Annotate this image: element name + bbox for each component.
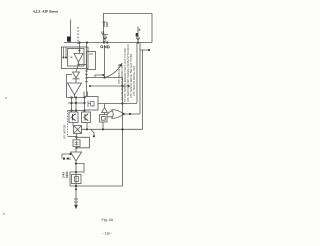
wire vertical feed A	[136, 43, 138, 104]
wire lower return y129.3	[82, 128, 143, 130]
wire horizontal y110.5	[68, 110, 85, 112]
ground arrow	[74, 205, 78, 209]
op-amp block U1 inner box	[68, 49, 85, 67]
wire G1 inputs	[107, 111, 113, 117]
svg-text:1B: 1B	[69, 56, 72, 59]
label vertical REG	[77, 27, 79, 44]
svg-text:ATF SERVO DRIVE OUT: ATF SERVO DRIVE OUT	[132, 65, 136, 96]
wire taps inside box	[64, 47, 67, 58]
node ladder dots	[70, 96, 85, 111]
wire bus to U1	[79, 43, 81, 54]
svg-text:2: 2	[139, 28, 141, 32]
wire top box loop	[104, 14, 153, 43]
wire Q2 down	[86, 123, 88, 130]
svg-text:ATF Servo: ATF Servo	[42, 10, 58, 14]
wire U3 stems	[104, 104, 106, 115]
svg-text:4.2.2: 4.2.2	[33, 10, 40, 14]
resistor network marks	[63, 158, 65, 160]
connector J3 stem	[137, 27, 139, 43]
resistor ticks on rail	[85, 71, 88, 82]
node bus junction dots	[78, 41, 139, 43]
wire horizontal y77.5	[87, 77, 123, 79]
caption figure	[101, 218, 113, 222]
svg-text:Fig. 4A: Fig. 4A	[101, 218, 113, 222]
relay K1 box	[85, 97, 99, 111]
svg-text:GND: GND	[100, 44, 110, 49]
wire A1 down	[102, 122, 104, 129]
wire U1 out	[76, 62, 79, 72]
wire feedback bracket 1	[77, 137, 90, 148]
wire horizontal y86	[90, 85, 123, 87]
relay K1 symbol	[88, 101, 91, 108]
wire feedback loop B	[76, 164, 84, 173]
motor M1 cross	[74, 126, 82, 134]
wire main horizontal bus	[64, 42, 152, 44]
node out dots	[75, 162, 77, 173]
label 343	[61, 171, 69, 178]
node M1 out dot	[75, 136, 77, 138]
wire U1 out to rail	[79, 64, 87, 66]
transistor Q1 symbol	[71, 114, 76, 121]
caption heading	[33, 10, 58, 14]
wire vertical feed B	[139, 43, 141, 115]
resistor R1 ticks	[75, 141, 79, 146]
label pin 2	[139, 28, 141, 32]
wire ladder verticals	[72, 98, 77, 111]
transistor Q2 box	[82, 112, 91, 123]
connector J3 tick	[136, 33, 138, 37]
diode D1	[73, 72, 80, 79]
capacitor C1 bars	[84, 92, 87, 97]
resistor R2 inner	[75, 177, 79, 182]
comparator A1 box	[100, 115, 108, 123]
connector J3 chevron	[136, 38, 140, 41]
wire vertical feed C	[142, 50, 144, 129]
node ground junction	[75, 185, 77, 187]
wire dashed drop	[67, 111, 69, 137]
op-amp U2 triangle	[68, 83, 82, 95]
wire M1 out	[76, 134, 78, 140]
wire Q1 to M1	[72, 123, 74, 126]
node U1 in dot	[79, 50, 81, 52]
wire curved leader	[105, 65, 122, 78]
test point TP2 stub	[123, 85, 128, 87]
wire feedback loop C	[70, 172, 76, 186]
gate G1	[112, 110, 124, 119]
wire horizontal y97.5	[67, 97, 85, 99]
label pin 11	[101, 31, 105, 35]
svg-text:- 116 -: - 116 -	[102, 231, 112, 235]
arrowhead leader	[119, 63, 122, 66]
relay box K2	[87, 52, 96, 70]
node right bus dots	[121, 102, 123, 130]
resistor R1 box	[73, 140, 80, 147]
wire ladder middle rung	[68, 102, 85, 104]
motor M1 box	[74, 126, 82, 134]
wire gate output y114	[124, 113, 141, 115]
wire dashed drop corner	[68, 136, 77, 138]
wire gate feedback y103.5	[98, 103, 137, 105]
label 1B	[69, 56, 72, 59]
wire R1 to U4	[75, 147, 77, 152]
node gate output dots	[129, 113, 131, 115]
wire right bus vertical	[122, 78, 124, 187]
test point probe	[91, 130, 94, 136]
node chain dot	[75, 147, 77, 149]
connector J2 chevron	[103, 37, 107, 40]
op-amp block U1 outer box	[62, 47, 89, 69]
resistor R2 box	[72, 175, 82, 184]
label GND	[100, 44, 110, 49]
wire U4 out	[75, 161, 77, 186]
connector J2 pins	[103, 22, 108, 28]
op-amp U1 triangle	[74, 54, 83, 63]
node y129.3 dots	[86, 128, 104, 130]
connector J1 body	[67, 37, 71, 42]
svg-text:ATF MOTOR: ATF MOTOR	[64, 124, 67, 139]
wire D1 to U2	[75, 79, 77, 83]
op-amp U3 triangle	[102, 108, 108, 113]
wire bottom return	[70, 185, 123, 187]
wire right rail	[86, 43, 88, 97]
svg-text:1503: 1503	[65, 171, 69, 178]
op-amp U4 triangle	[71, 152, 82, 161]
node U1 out dot	[77, 63, 79, 65]
connector J1 post	[70, 20, 72, 43]
node TP1 dot	[148, 49, 150, 51]
wire feedback loop around U2	[67, 75, 73, 98]
comparator A1 inner	[102, 116, 106, 120]
svg-text:11: 11	[101, 31, 105, 35]
transistor Q1 box	[69, 112, 78, 123]
connector J2 stem	[102, 35, 108, 43]
wire jog above y77.5	[95, 75, 103, 78]
label vertical signal names	[117, 44, 136, 102]
transistor Q2 symbol	[83, 114, 88, 121]
wire U2 out	[74, 95, 76, 98]
node drop dot	[75, 188, 77, 190]
test point TP1 stub	[140, 49, 148, 51]
wire U4 left input	[62, 154, 71, 159]
caption page number	[102, 231, 112, 235]
wire center vertical	[104, 48, 106, 78]
node U4 input dot	[69, 153, 71, 155]
wire ground drop	[75, 186, 77, 207]
node dots	[89, 76, 124, 87]
specks	[5, 97, 7, 99]
